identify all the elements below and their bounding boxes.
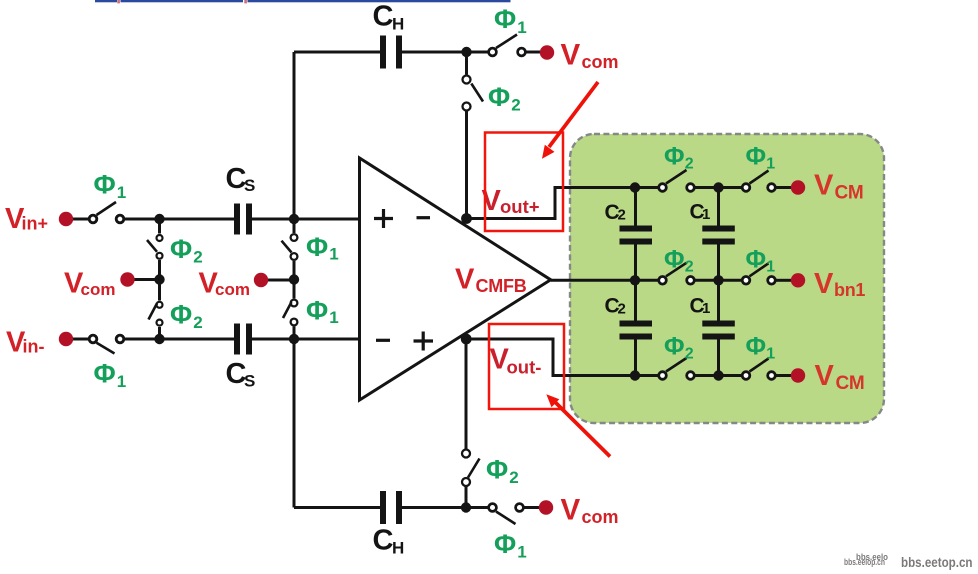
switch phi1 (top CH to Vcom) — [489, 35, 526, 56]
terminal VCM row3 — [791, 368, 805, 382]
svg-text:2: 2 — [193, 248, 202, 267]
node: Vout- on op-amp — [461, 334, 472, 345]
label Vin+ — [5, 203, 48, 235]
svg-text:Φ: Φ — [664, 143, 685, 171]
node: green row2 C2 — [630, 275, 640, 285]
svg-text:Φ: Φ — [170, 300, 192, 330]
switch phi1 (green row2) — [742, 263, 775, 284]
label Vcom 2 — [199, 268, 250, 300]
node: green row3 C1 — [713, 370, 723, 380]
svg-text:S: S — [244, 372, 255, 391]
node: top CH junction — [461, 47, 471, 57]
wire: left node column — [158, 219, 161, 339]
label phi2 (green row1) — [664, 143, 694, 173]
label phi1 (green row3) — [746, 333, 776, 363]
label Vout- — [490, 344, 542, 378]
highlight box Vout+ — [485, 133, 563, 232]
shaded region (green dashed box) — [570, 134, 884, 423]
svg-text:V: V — [455, 264, 475, 296]
switch phi1 (Vin+ input) — [89, 202, 124, 223]
svg-text:V: V — [561, 39, 581, 72]
svg-text:S: S — [244, 176, 255, 195]
wire: green row 1 — [635, 186, 792, 189]
highlight box Vout- — [489, 324, 564, 409]
svg-text:out-: out- — [507, 357, 542, 378]
wire: vertical to bottom CH — [465, 339, 468, 508]
capacitor C1 (lower) — [690, 295, 735, 340]
label phi2 (green row3) — [664, 333, 694, 363]
wire: Vcom tap 1 — [134, 278, 160, 281]
svg-text:Φ: Φ — [306, 232, 328, 262]
label Vcom bottom — [561, 494, 619, 528]
svg-text:1: 1 — [329, 308, 338, 327]
svg-text:out+: out+ — [500, 196, 540, 217]
arrow to Vout+ — [542, 82, 598, 159]
svg-text:1: 1 — [702, 300, 710, 317]
svg-text:1: 1 — [117, 183, 126, 202]
wire: bottom CH row — [294, 506, 540, 509]
label phi2 (top CH) — [488, 82, 521, 115]
svg-text:Φ: Φ — [170, 234, 192, 264]
label VCMFB — [455, 264, 527, 297]
node: Vout+ on op-amp — [461, 213, 472, 224]
switch phi2 (upper left column) — [147, 235, 163, 259]
label Vout+ — [482, 185, 540, 217]
wire: green row 2 — [635, 279, 792, 282]
svg-text:Φ: Φ — [306, 296, 328, 326]
svg-text:2: 2 — [618, 207, 626, 224]
terminal Vcom 1 — [120, 272, 134, 286]
watermark — [844, 552, 973, 570]
label phi1 (Vin+ switch) — [94, 170, 127, 203]
wire: green row 3 — [635, 374, 792, 377]
wire: C2 column — [634, 188, 637, 376]
terminal Vin- — [59, 332, 73, 346]
wire: Vout- step — [466, 339, 635, 376]
svg-text:1: 1 — [517, 543, 526, 562]
terminal VCM row1 — [791, 180, 805, 194]
label phi2 (upper left) — [170, 234, 203, 267]
svg-text:bbs.eelop.cn: bbs.eelop.cn — [844, 557, 885, 567]
node: green row2 C1 — [713, 275, 723, 285]
svg-text:Φ: Φ — [746, 246, 767, 274]
capacitor Cs (bottom) — [226, 324, 256, 391]
capacitor Cs (top) — [226, 163, 256, 235]
wire: top CH row — [294, 51, 541, 54]
label Vin- — [6, 327, 45, 359]
switch phi2 (top CH vertical) — [463, 76, 484, 111]
terminal Vin+ — [59, 212, 73, 226]
label phi1 (green row2) — [746, 246, 776, 276]
label phi1 (bottom CH) — [494, 529, 527, 562]
arrow to Vout- — [546, 394, 610, 456]
svg-text:Φ: Φ — [494, 529, 516, 559]
switch phi1 (lower rail) — [283, 300, 297, 326]
capacitor C1 (upper) — [690, 201, 735, 245]
wire: main rail — [293, 52, 296, 508]
node: green row1 C2 — [630, 182, 640, 192]
wire: VCMFB output — [551, 279, 636, 282]
label phi1 (green row1) — [746, 143, 776, 173]
switch phi2 (green row3) — [659, 358, 695, 379]
svg-text:1: 1 — [117, 372, 126, 391]
svg-text:2: 2 — [618, 301, 626, 318]
switch phi1 (green row3) — [742, 359, 775, 380]
terminal Vbn1 row2 — [791, 273, 805, 287]
capacitor C2 (upper) — [605, 201, 653, 245]
wire: vertical to op-amp top — [465, 52, 468, 219]
svg-text:1: 1 — [329, 245, 338, 264]
svg-text:in-: in- — [23, 337, 45, 357]
node: green row1 C1 — [713, 182, 723, 192]
node: Vcom tap 1 — [154, 274, 164, 284]
svg-text:H: H — [392, 539, 404, 558]
svg-text:bn1: bn1 — [834, 280, 865, 300]
node: bottom CH junction — [461, 502, 471, 512]
label phi1 (Vin- switch) — [94, 359, 127, 392]
svg-text:Φ: Φ — [488, 82, 510, 112]
svg-text:1: 1 — [766, 346, 775, 363]
label Vbn1 row2 — [814, 268, 865, 300]
svg-text:CMFB: CMFB — [476, 276, 527, 296]
svg-text:2: 2 — [511, 96, 520, 115]
switch phi2 (bottom CH vertical) — [462, 450, 480, 487]
svg-text:1: 1 — [517, 18, 526, 37]
switch phi2 (lower left column) — [149, 302, 163, 326]
svg-text:CM: CM — [835, 183, 864, 204]
node: green row3 C2 — [630, 370, 640, 380]
svg-text:com: com — [215, 280, 250, 299]
svg-text:Φ: Φ — [94, 359, 116, 389]
node: rail Vcom tap — [289, 274, 299, 284]
op-amp U1 — [360, 158, 551, 400]
wire: Vcom tap 2 — [268, 279, 295, 282]
svg-text:H: H — [392, 15, 404, 34]
svg-text:V: V — [561, 494, 581, 527]
svg-text:V: V — [814, 170, 834, 202]
node: rail bottom input — [289, 334, 299, 344]
label phi2 (bottom CH) — [486, 455, 519, 488]
label VCM row3 — [815, 360, 865, 394]
wire: C1 column — [717, 188, 720, 376]
svg-text:C: C — [373, 525, 394, 557]
label phi1 (lower rail) — [306, 296, 339, 328]
cut-off hyperlink underline (blue) — [95, 0, 511, 3]
svg-text:Φ: Φ — [664, 333, 685, 361]
label phi2 (green row2) — [664, 246, 694, 276]
switch phi1 (Vin- input) — [89, 335, 124, 353]
svg-text:1: 1 — [766, 259, 775, 276]
svg-text:1: 1 — [702, 206, 710, 223]
capacitor CH (top) — [373, 1, 405, 69]
switch phi1 (bottom CH to Vcom) — [489, 504, 524, 524]
svg-text:Φ: Φ — [664, 246, 685, 274]
svg-text:C: C — [373, 1, 394, 33]
svg-text:V: V — [814, 268, 834, 300]
svg-text:com: com — [81, 280, 116, 299]
node: Vin+ / Cs junction — [154, 214, 164, 224]
terminal Vcom top — [540, 45, 554, 59]
capacitor C2 (lower) — [605, 295, 653, 340]
label phi1 (upper rail) — [306, 232, 339, 264]
switch phi1 (upper rail) — [282, 234, 298, 260]
svg-text:Φ: Φ — [746, 333, 767, 361]
svg-text:Φ: Φ — [494, 4, 516, 34]
svg-text:Φ: Φ — [486, 455, 508, 485]
label VCM row1 — [814, 170, 863, 204]
switch phi1 (green row1) — [742, 171, 775, 192]
label Vcom top — [561, 39, 619, 73]
svg-text:bbs.eetop.cn: bbs.eetop.cn — [901, 554, 973, 570]
wire: Vin- row — [73, 338, 360, 341]
label Vcom 1 — [64, 268, 115, 300]
svg-text:2: 2 — [685, 346, 694, 363]
svg-text:com: com — [582, 52, 619, 72]
terminal Vcom 2 — [254, 273, 268, 287]
wire: Vin+ row — [73, 218, 360, 221]
switch phi2 (green row1) — [659, 170, 695, 191]
label phi1 (top CH) — [494, 4, 527, 37]
terminal Vcom bottom — [539, 500, 553, 514]
svg-text:Φ: Φ — [94, 170, 116, 200]
node: Vin- / Cs junction — [154, 334, 164, 344]
svg-text:Φ: Φ — [746, 143, 767, 171]
svg-text:CM: CM — [836, 373, 865, 394]
node: rail top input — [289, 214, 299, 224]
svg-text:V: V — [815, 360, 835, 392]
switch phi2 (green row2) — [659, 263, 695, 284]
svg-text:in+: in+ — [22, 214, 49, 234]
svg-text:2: 2 — [685, 259, 694, 276]
wire: Vout+ step — [467, 188, 636, 219]
svg-text:com: com — [582, 507, 619, 527]
svg-text:2: 2 — [193, 313, 202, 332]
label phi2 (lower left) — [170, 300, 203, 333]
svg-text:2: 2 — [509, 468, 518, 487]
capacitor CH (bottom) — [373, 491, 405, 558]
svg-text:1: 1 — [766, 156, 775, 173]
svg-text:2: 2 — [685, 156, 694, 173]
